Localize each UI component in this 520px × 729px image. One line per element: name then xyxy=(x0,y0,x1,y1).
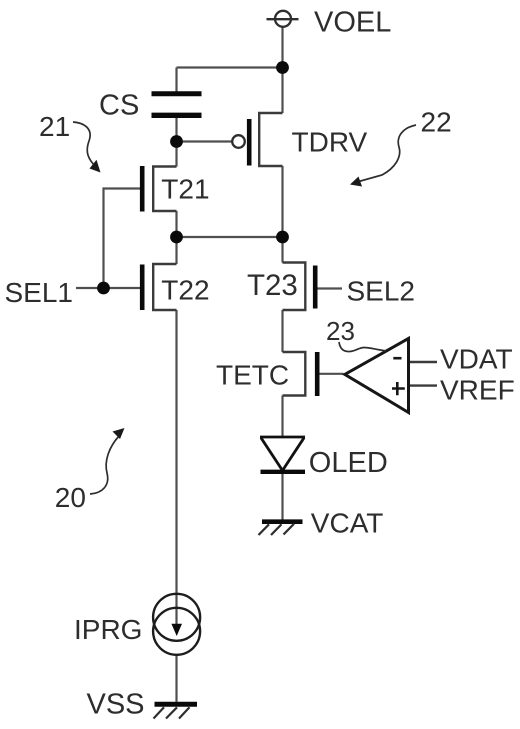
svg-text:VDAT: VDAT xyxy=(440,344,513,375)
svg-text:VSS: VSS xyxy=(87,689,145,721)
svg-text:20: 20 xyxy=(55,482,86,513)
svg-text:OLED: OLED xyxy=(309,447,388,479)
svg-text:VOEL: VOEL xyxy=(314,6,391,38)
svg-text:VCAT: VCAT xyxy=(311,508,384,539)
svg-text:T21: T21 xyxy=(161,174,209,205)
svg-text:TDRV: TDRV xyxy=(292,127,368,158)
svg-text:IPRG: IPRG xyxy=(74,614,142,645)
svg-text:CS: CS xyxy=(99,90,139,122)
svg-text:SEL2: SEL2 xyxy=(347,276,416,307)
svg-text:22: 22 xyxy=(421,107,452,138)
svg-text:VREF: VREF xyxy=(440,375,515,406)
svg-text:SEL1: SEL1 xyxy=(5,277,74,308)
svg-text:T23: T23 xyxy=(247,269,298,302)
svg-text:TETC: TETC xyxy=(216,360,289,391)
svg-text:21: 21 xyxy=(39,111,70,142)
svg-text:23: 23 xyxy=(326,316,355,346)
svg-text:T22: T22 xyxy=(161,275,209,306)
